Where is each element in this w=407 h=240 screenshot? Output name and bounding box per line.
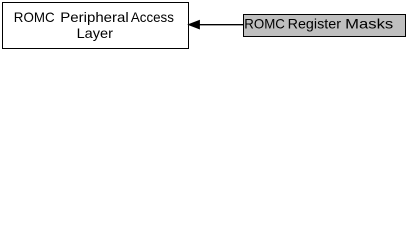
svg-text:Layer: Layer — [77, 25, 114, 41]
node N2: ROMC Register Masks (gray box) — [244, 15, 406, 37]
svg-text:ROMC: ROMC — [14, 9, 55, 25]
svg-text:Access: Access — [131, 9, 174, 25]
svg-text:Register: Register — [288, 16, 342, 32]
svg-text:Masks: Masks — [345, 16, 393, 32]
background — [0, 0, 407, 51]
svg-text:ROMC: ROMC — [244, 16, 285, 32]
wire: edge from N2 to N1 — [199, 24, 244, 26]
node N1: ROMC Peripheral Access Layer (box) — [3, 3, 189, 49]
svg-text:Peripheral: Peripheral — [60, 9, 128, 25]
arrowhead at N1 — [188, 20, 199, 29]
